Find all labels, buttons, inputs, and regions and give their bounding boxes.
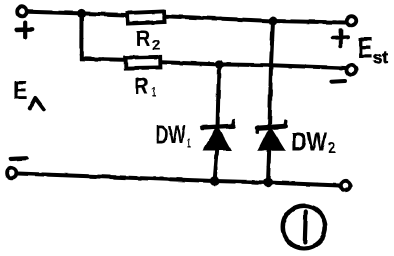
svg-text:2: 2	[328, 140, 336, 157]
svg-text:R: R	[134, 73, 148, 100]
svg-text:R: R	[136, 26, 151, 51]
svg-text:E: E	[358, 32, 374, 65]
svg-text:1: 1	[187, 136, 191, 151]
svg-text:E: E	[13, 75, 28, 105]
svg-text:DW: DW	[292, 127, 328, 157]
svg-text:st: st	[373, 49, 389, 67]
svg-text:1: 1	[152, 84, 157, 99]
svg-text:2: 2	[152, 37, 161, 54]
svg-text:DW: DW	[156, 121, 186, 149]
